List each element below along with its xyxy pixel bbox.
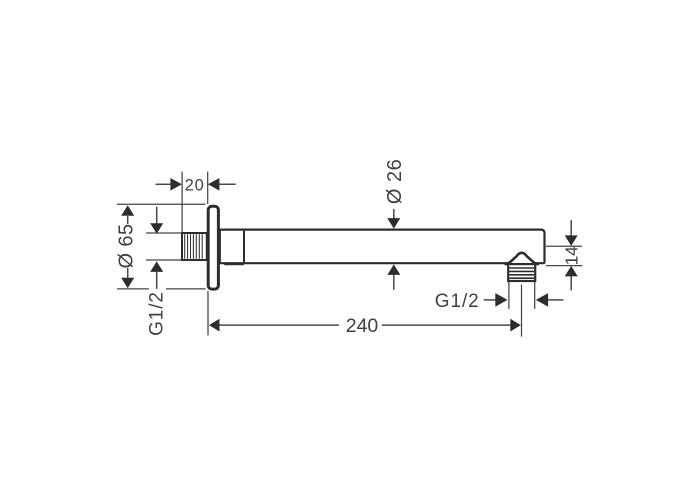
dimension 240 extension lines: [208, 285, 522, 337]
dimension 20 extension lines: [182, 172, 208, 233]
svg-text:Ø 26: Ø 26: [384, 159, 406, 204]
arm base step line: [224, 264, 244, 266]
dimension G1/2 left extension lines: [146, 233, 181, 260]
outlet thread block: [508, 264, 535, 281]
threaded nipple: [182, 233, 207, 260]
svg-text:Ø 65: Ø 65: [116, 224, 138, 269]
outlet dome: [506, 253, 538, 264]
dimension 14 extension lines: [546, 246, 582, 265]
dimension Ø65 extension lines: [117, 204, 206, 289]
dimension G1/2 right arrows: [484, 299, 496, 301]
dimension 240 line and arrows: [209, 319, 220, 332]
arm joint line: [243, 231, 245, 262]
dimension 20 arrows: [156, 183, 172, 185]
dimension G1/2 left arrows: [156, 207, 158, 224]
svg-text:G1/2: G1/2: [435, 291, 480, 312]
dimension Ø26 arrows: [393, 209, 395, 219]
svg-text:14: 14: [561, 246, 581, 265]
outlet thread hatch: [509, 268, 534, 278]
arm body tube: [220, 230, 545, 264]
escutcheon flange: [208, 206, 218, 289]
dimension 14 arrows: [570, 220, 572, 235]
dimension G1/2 right extension lines: [509, 282, 535, 309]
dimension Ø65 line and arrows: [121, 205, 134, 216]
svg-text:240: 240: [346, 315, 379, 337]
nipple thread hatch: [185, 234, 203, 259]
svg-text:G1/2: G1/2: [146, 291, 167, 336]
svg-text:20: 20: [185, 177, 205, 195]
